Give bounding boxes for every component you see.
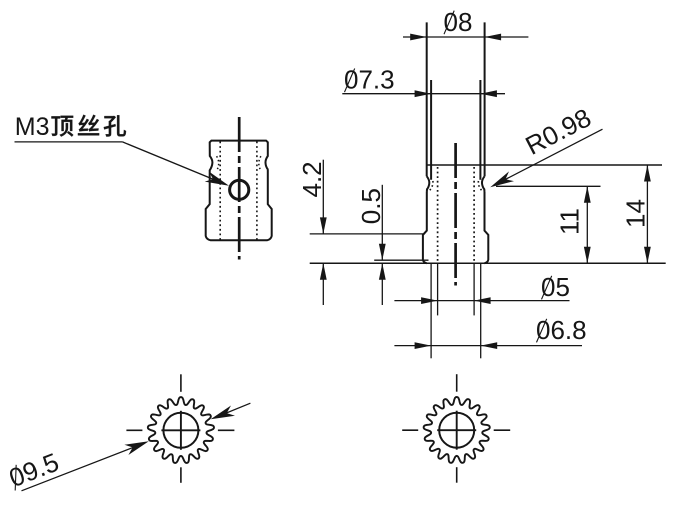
dimension Ø8 arrows <box>410 34 427 41</box>
svg-text:11: 11 <box>555 208 585 235</box>
svg-text:4.2: 4.2 <box>297 161 327 197</box>
relief groove right <box>482 176 485 192</box>
side view centreline <box>238 117 241 260</box>
centreline front view <box>454 143 457 286</box>
M3 set-screw hole circle <box>230 180 249 199</box>
dimension Ø7.3 arrows <box>415 90 432 97</box>
svg-text:0.5: 0.5 <box>356 188 386 224</box>
gear bottom face edge + 14-dim extension line <box>427 164 662 166</box>
Ø5 extension lines <box>437 263 439 315</box>
gear tooth tip line right (Ø8) <box>484 22 486 176</box>
body edge right with chamfer and bottom lip <box>484 192 488 263</box>
groove hidden arc left (dotted) <box>428 181 433 192</box>
svg-text:06.8: 06.8 <box>536 315 587 345</box>
gear centreline ticks left <box>180 374 182 392</box>
Ø9.5 text <box>5 447 63 493</box>
gear root line left (Ø7.3) <box>430 80 432 180</box>
relief groove left <box>427 176 430 192</box>
gear root line right (Ø7.3) <box>479 80 481 180</box>
svg-text:M3: M3 <box>15 113 50 141</box>
svg-text:08: 08 <box>444 7 473 37</box>
base line (part bottom / datum) <box>310 262 666 264</box>
0.5 dimension line + arrows <box>381 185 383 260</box>
11 upper extension line (groove level) <box>496 185 601 187</box>
side view root hidden line left (dotted) <box>219 142 221 240</box>
svg-text:05: 05 <box>541 272 570 302</box>
svg-text:14: 14 <box>621 199 651 228</box>
side view groove hidden arc right <box>259 156 261 170</box>
4.2 upper extension line <box>310 233 423 235</box>
Ø5 dimension line + arrows <box>394 300 569 302</box>
side view groove hidden arc left <box>217 156 219 170</box>
gear crosshair right <box>437 429 476 431</box>
4.2 dimension line + arrows <box>322 160 324 234</box>
side view outline <box>206 141 272 241</box>
dimension Ø7.3 line <box>342 93 505 95</box>
dimension Ø8 line <box>403 36 528 38</box>
svg-text:07.3: 07.3 <box>344 65 395 95</box>
label M3顶丝孔 text <box>15 113 126 141</box>
gear bore circle right <box>439 413 474 448</box>
side view root hidden line right (dotted) <box>256 142 258 240</box>
gear bore circle left <box>163 413 198 448</box>
gear outline bottom view right <box>424 397 490 463</box>
Ø6.8 extension lines <box>430 263 432 358</box>
gear outline bottom view left <box>148 397 214 463</box>
Ø6.8 dimension line + arrows <box>394 345 582 347</box>
groove hidden arc right (dotted) <box>478 181 483 192</box>
leader R0.98 <box>494 129 603 185</box>
Ø9.5 opposite arrow <box>215 403 250 417</box>
bore hidden line right (dotted Ø5) <box>473 167 475 263</box>
gear crosshair left <box>161 429 200 431</box>
body edge left with chamfer and bottom lip <box>423 192 427 263</box>
gear centreline ticks right <box>456 374 458 392</box>
label leader line + arrowhead <box>123 142 226 184</box>
label underline <box>15 141 123 143</box>
bore hidden line left (dotted Ø5) <box>437 167 439 263</box>
0.5 upper extension line <box>374 259 428 261</box>
11 dimension line + arrows <box>586 186 588 263</box>
gear tooth tip line left (Ø8) <box>426 22 428 176</box>
14 dimension line + arrows <box>646 165 648 263</box>
Ø9.5 leader line + arrowhead <box>22 443 145 491</box>
